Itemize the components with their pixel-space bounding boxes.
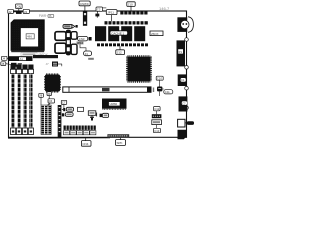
small tick right of bar [153, 88, 154, 93]
svg-text:CN4: CN4 [82, 142, 88, 146]
callout JP2 (left) [8, 9, 16, 14]
callout CN2 + T-connector [95, 7, 106, 18]
small connector at slot tops [11, 63, 17, 67]
mounting hole 1 [185, 38, 189, 42]
white header box [152, 120, 162, 129]
BIOS chip U2 [45, 74, 61, 92]
svg-text:C10: C10 [157, 77, 163, 81]
connector CN14 [178, 74, 187, 86]
svg-text:P1: P1 [179, 50, 183, 54]
callout CN7 [61, 100, 66, 108]
small white box [78, 107, 84, 111]
chipset U3 [127, 56, 151, 82]
below-board callout 2 [116, 138, 126, 146]
front panel header block: pin row [64, 126, 96, 130]
pin strip (black) [152, 114, 162, 118]
ISA slot 4 [28, 65, 33, 135]
CPU socket U1 [11, 20, 44, 52]
fan connector blob [16, 11, 22, 14]
callout JP1 (top-left center) [16, 4, 23, 11]
svg-text:CN8/9: CN8/9 [80, 2, 89, 6]
VESA slot (long bar) [63, 87, 151, 92]
connector box + T standoff [88, 111, 96, 121]
right column: callout CN12 [154, 107, 161, 115]
jumper strip B [105, 21, 148, 24]
controller chip U4 [102, 99, 127, 110]
svg-text:J7: J7 [46, 62, 50, 66]
svg-text:UM82: UM82 [110, 102, 118, 106]
mounting hole 3 [185, 86, 189, 90]
fuse F2 (pointed jumper) [63, 24, 78, 28]
svg-text:J4: J4 [2, 57, 5, 61]
vertical connector CN8 [83, 11, 87, 25]
callout JP11 [106, 10, 117, 22]
svg-text:J9: J9 [48, 92, 51, 96]
pill label [164, 90, 173, 94]
box 2500 (part number) [150, 31, 163, 36]
narrow vertical connector [58, 105, 62, 137]
connector CN15 [179, 96, 188, 111]
callout JP10 [127, 2, 135, 12]
speaker grille bar (gray) [107, 134, 129, 137]
svg-text:SPK: SPK [117, 141, 123, 145]
left edge callout 2 [1, 62, 11, 66]
callout CN6 [48, 99, 55, 106]
left edge callout 1 [2, 56, 10, 60]
svg-text:J3: J3 [24, 10, 28, 14]
front panel label row [64, 131, 96, 135]
callout JP8 [39, 93, 44, 105]
smd resistor [88, 58, 94, 60]
svg-text:C2: C2 [182, 101, 186, 105]
svg-text:CN: CN [16, 5, 21, 9]
connector bar CN5 (black bar with label) [9, 56, 33, 61]
board outline [9, 11, 187, 137]
label JP14 + stem + pill JP15 [77, 41, 92, 56]
ISA slot 1 [11, 65, 16, 135]
svg-text:25DX: 25DX [151, 32, 159, 36]
jumper strip A [120, 11, 147, 15]
VRM bottom-left frame [55, 43, 66, 53]
callout CN13 [154, 128, 161, 133]
plug part [100, 113, 109, 117]
svg-text:J10: J10 [128, 3, 133, 7]
svg-text:C1: C1 [181, 78, 185, 82]
callout JP12 [116, 46, 125, 54]
VRM capsule [66, 30, 71, 56]
svg-text:J2: J2 [8, 10, 12, 14]
mounting hole 2 [185, 66, 189, 70]
svg-text:PWR··: PWR·· [39, 14, 49, 18]
pill CN3 + black square [78, 36, 92, 41]
svg-text:146-7: 146-7 [159, 6, 170, 11]
svg-text:C13: C13 [154, 129, 160, 133]
svg-text:J8: J8 [39, 94, 42, 98]
svg-text:CN3: CN3 [79, 37, 85, 41]
svg-text:C6: C6 [49, 99, 53, 103]
svg-text:CACHE 1: CACHE 1 [111, 31, 124, 35]
cache SRAM chip 3 [121, 26, 132, 41]
socket label strip [21, 53, 37, 56]
white square connector [178, 119, 194, 127]
svg-text:C12: C12 [154, 107, 160, 111]
svg-text:J5: J5 [1, 62, 4, 66]
SIMM bank (striped block) [41, 105, 51, 135]
VRM bottom-right frame [71, 44, 77, 54]
svg-text:J12: J12 [117, 51, 122, 55]
svg-text:JP14: JP14 [77, 41, 83, 45]
svg-text:486: 486 [27, 35, 32, 39]
jumper pair 2 [62, 113, 73, 117]
callout JP9 [47, 92, 52, 105]
cache label box [110, 31, 128, 36]
keyboard DIN connector [177, 17, 193, 33]
cache SRAM chip 2 [108, 26, 119, 41]
cache SRAM chip 4 [134, 26, 145, 41]
below-board callout 1 [81, 138, 91, 147]
callout CN8/9 [79, 1, 90, 11]
power connector PW1 [177, 40, 186, 66]
black connector bottom right [177, 130, 186, 140]
svg-text:A1: A1 [20, 57, 24, 61]
ISA slot 2 [16, 65, 21, 135]
callout CN10 [156, 76, 163, 86]
mounting hole 4 [185, 106, 189, 110]
jumper pair 1 [62, 107, 74, 111]
svg-text:C11: C11 [165, 90, 170, 94]
jumper strip C [97, 43, 148, 46]
cache SRAM chip 1 [95, 26, 106, 41]
svg-text:C2: C2 [97, 8, 101, 12]
VRM top-right frame [71, 32, 77, 40]
smd strip [33, 55, 58, 58]
svg-text:F1: F1 [85, 52, 89, 56]
VRM cluster: top-left frame [55, 32, 66, 41]
svg-text:C7: C7 [62, 101, 66, 105]
connector CN11 (black blob) [157, 87, 164, 97]
ISA slot 3 [22, 65, 27, 135]
svg-text:JP11: JP11 [107, 11, 114, 15]
callout JP3 (right) [22, 9, 30, 14]
